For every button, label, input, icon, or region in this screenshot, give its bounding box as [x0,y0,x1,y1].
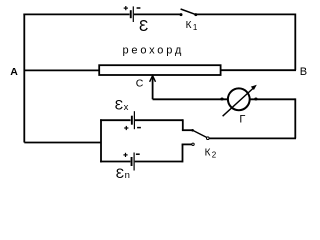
wire: En branch right corner up [182,144,184,162]
galvanometer G circle [228,88,250,110]
battery E polarity + sign [124,6,128,10]
wire: K2 pivot to right vertical [209,137,296,139]
svg-text:2: 2 [212,150,217,159]
battery En polarity + sign [123,153,127,157]
battery Ex polarity - sign [137,127,141,129]
battery Ex polarity + sign [124,126,128,130]
wire: Ex branch top right segment to corner [135,119,183,121]
junction arrow-dot right of galvanometer [254,98,257,101]
switch K1 blade (open) [181,9,196,15]
svg-text:реохорд: реохорд [123,44,185,56]
svg-text:Ɛ: Ɛ [139,18,148,35]
svg-text:1: 1 [193,23,198,32]
En contact open circle [192,143,194,145]
battery Ex plates [131,111,135,129]
wire: Ex branch right corner down [182,119,184,130]
wire: Ex contact stub [182,129,192,131]
wire: left vertical from top-left corner down to bottom branch [23,14,25,143]
wire: top horizontal left segment (corner to battery E) [23,13,129,15]
svg-text:Ɛ: Ɛ [116,165,124,181]
wire: right vertical (top corner down to node B) [294,14,296,71]
battery E polarity - sign [137,7,141,9]
svg-text:С: С [136,78,144,90]
svg-text:В: В [300,66,307,78]
slider C arrow (wiper on rheochord) [150,76,156,100]
wire: from left vertical to cell loop (node junction) [24,142,101,144]
wire: top horizontal right segment (K1 to top-right corner) [197,13,296,15]
svg-text:А: А [10,66,18,78]
wire: right vertical (galvanometer level down to K2 level) [294,98,296,138]
wire: galvanometer right to right-side vertical [250,98,295,100]
wire: top horizontal middle segment (battery to switch K1) [134,13,180,15]
galvanometer needle arrow [223,88,254,117]
switch K2 blade [193,130,207,137]
switch K1 left terminal dot [180,13,183,16]
wire: En branch bottom left segment [100,161,130,163]
wire: En branch bottom right segment to corner [135,161,183,163]
Ex contact dot [191,129,194,132]
junction arrow-dot left of galvanometer [220,98,223,101]
battery En polarity - sign [136,153,140,155]
wire: slider C down and right to galvanometer [153,98,228,100]
svg-text:x: x [124,102,129,113]
switch K1 right terminal dot [194,13,197,16]
wire: cell loop left vertical [100,119,102,162]
svg-text:К: К [205,147,211,158]
rheochord body rectangle [99,65,220,75]
wire: rheochord right end to node B [221,69,296,71]
wire: Ex branch top left segment [100,119,131,121]
wire: En contact stub [182,143,192,145]
battery En plates [131,153,135,171]
svg-text:К: К [186,20,192,31]
switch K2 pivot circle [207,137,210,140]
battery E plates [130,6,134,22]
svg-text:Г: Г [239,113,245,125]
svg-text:n: n [125,170,130,181]
svg-text:Ɛ: Ɛ [115,97,123,113]
wire: node A horizontal to rheochord left end [24,69,98,71]
